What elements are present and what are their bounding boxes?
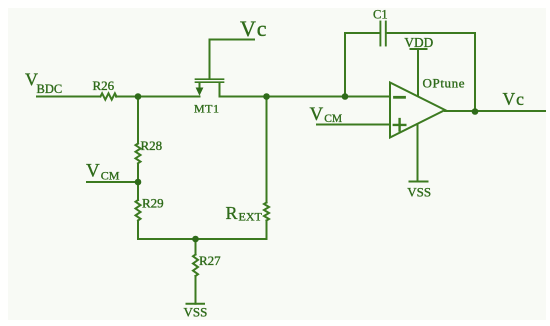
svg-text:EXT: EXT xyxy=(239,209,263,223)
VSS rail bar (bottom) xyxy=(187,303,205,305)
resistor R27 xyxy=(193,255,198,276)
svg-text:R: R xyxy=(226,203,238,223)
node junction R_EXT tap xyxy=(263,93,270,100)
resistor R_EXT xyxy=(264,203,269,221)
wire R28 to R29 xyxy=(137,164,139,201)
node junction output xyxy=(472,108,479,115)
svg-text:Vc: Vc xyxy=(503,89,525,109)
svg-text:R29: R29 xyxy=(142,196,164,211)
wire R_EXT top xyxy=(266,97,268,203)
wire Vc to MT1 gate xyxy=(210,40,255,79)
resistor R29 xyxy=(136,200,141,220)
transistor MT1 drain leg xyxy=(219,83,221,97)
svg-text:V: V xyxy=(86,160,100,181)
transistor MT1 source leg xyxy=(199,83,201,89)
capacitor C1 right plate xyxy=(385,22,387,46)
svg-text:OPtune: OPtune xyxy=(423,75,466,90)
wire R26 to MT1 source xyxy=(116,96,200,98)
svg-text:VSS: VSS xyxy=(407,185,431,200)
transistor MT1 channel bar xyxy=(196,81,224,83)
wire R29 to bottom rail xyxy=(137,221,139,240)
wire feedback right vertical xyxy=(474,33,476,112)
svg-text:R27: R27 xyxy=(199,253,221,268)
wire op-amp to VSS xyxy=(417,124,419,181)
capacitor C1 left plate xyxy=(379,22,381,46)
svg-text:Vc: Vc xyxy=(240,16,267,41)
resistor R28 xyxy=(136,144,141,164)
transistor MT1 gate bar xyxy=(196,78,224,80)
wire R_EXT bottom xyxy=(266,221,268,240)
op-amp U1 triangle xyxy=(390,83,445,138)
svg-text:BDC: BDC xyxy=(37,82,63,96)
VSS rail bar (op-amp) xyxy=(410,181,428,183)
svg-text:CM: CM xyxy=(101,168,120,182)
wire node branch vertical to R28 xyxy=(137,97,139,144)
wire feedback left vertical xyxy=(344,33,346,97)
wire bottom rail xyxy=(138,238,267,240)
wire feedback top right xyxy=(387,32,475,34)
svg-text:C1: C1 xyxy=(373,7,388,21)
wire MT1 drain to op-amp xyxy=(220,96,390,98)
svg-text:VDD: VDD xyxy=(404,35,433,50)
svg-text:MT1: MT1 xyxy=(194,101,220,115)
wire feedback top left xyxy=(345,32,380,34)
svg-text:CM: CM xyxy=(324,113,342,125)
wire V_BDC to R26 xyxy=(37,96,100,98)
wire R27 top xyxy=(195,239,197,255)
wire V_CM to plus input xyxy=(317,124,389,126)
svg-text:V: V xyxy=(310,104,324,125)
node junction feedback tap xyxy=(342,93,349,100)
svg-text:VSS: VSS xyxy=(184,304,208,319)
wire R27 to VSS xyxy=(195,276,197,304)
op-amp plus sign xyxy=(394,119,406,131)
node junction after R26 xyxy=(135,93,142,100)
wire V_CM left xyxy=(87,181,138,183)
node junction V_CM xyxy=(135,179,142,186)
transistor MT1 source arrow xyxy=(196,88,204,96)
wire output Vc xyxy=(445,110,545,112)
node junction bottom rail xyxy=(192,236,199,243)
wire VDD to op-amp xyxy=(417,49,419,96)
op-amp minus sign xyxy=(395,96,405,99)
resistor R26 xyxy=(101,93,117,99)
VDD rail bar xyxy=(411,48,427,50)
svg-text:R26: R26 xyxy=(93,78,115,93)
svg-text:R28: R28 xyxy=(141,138,163,153)
